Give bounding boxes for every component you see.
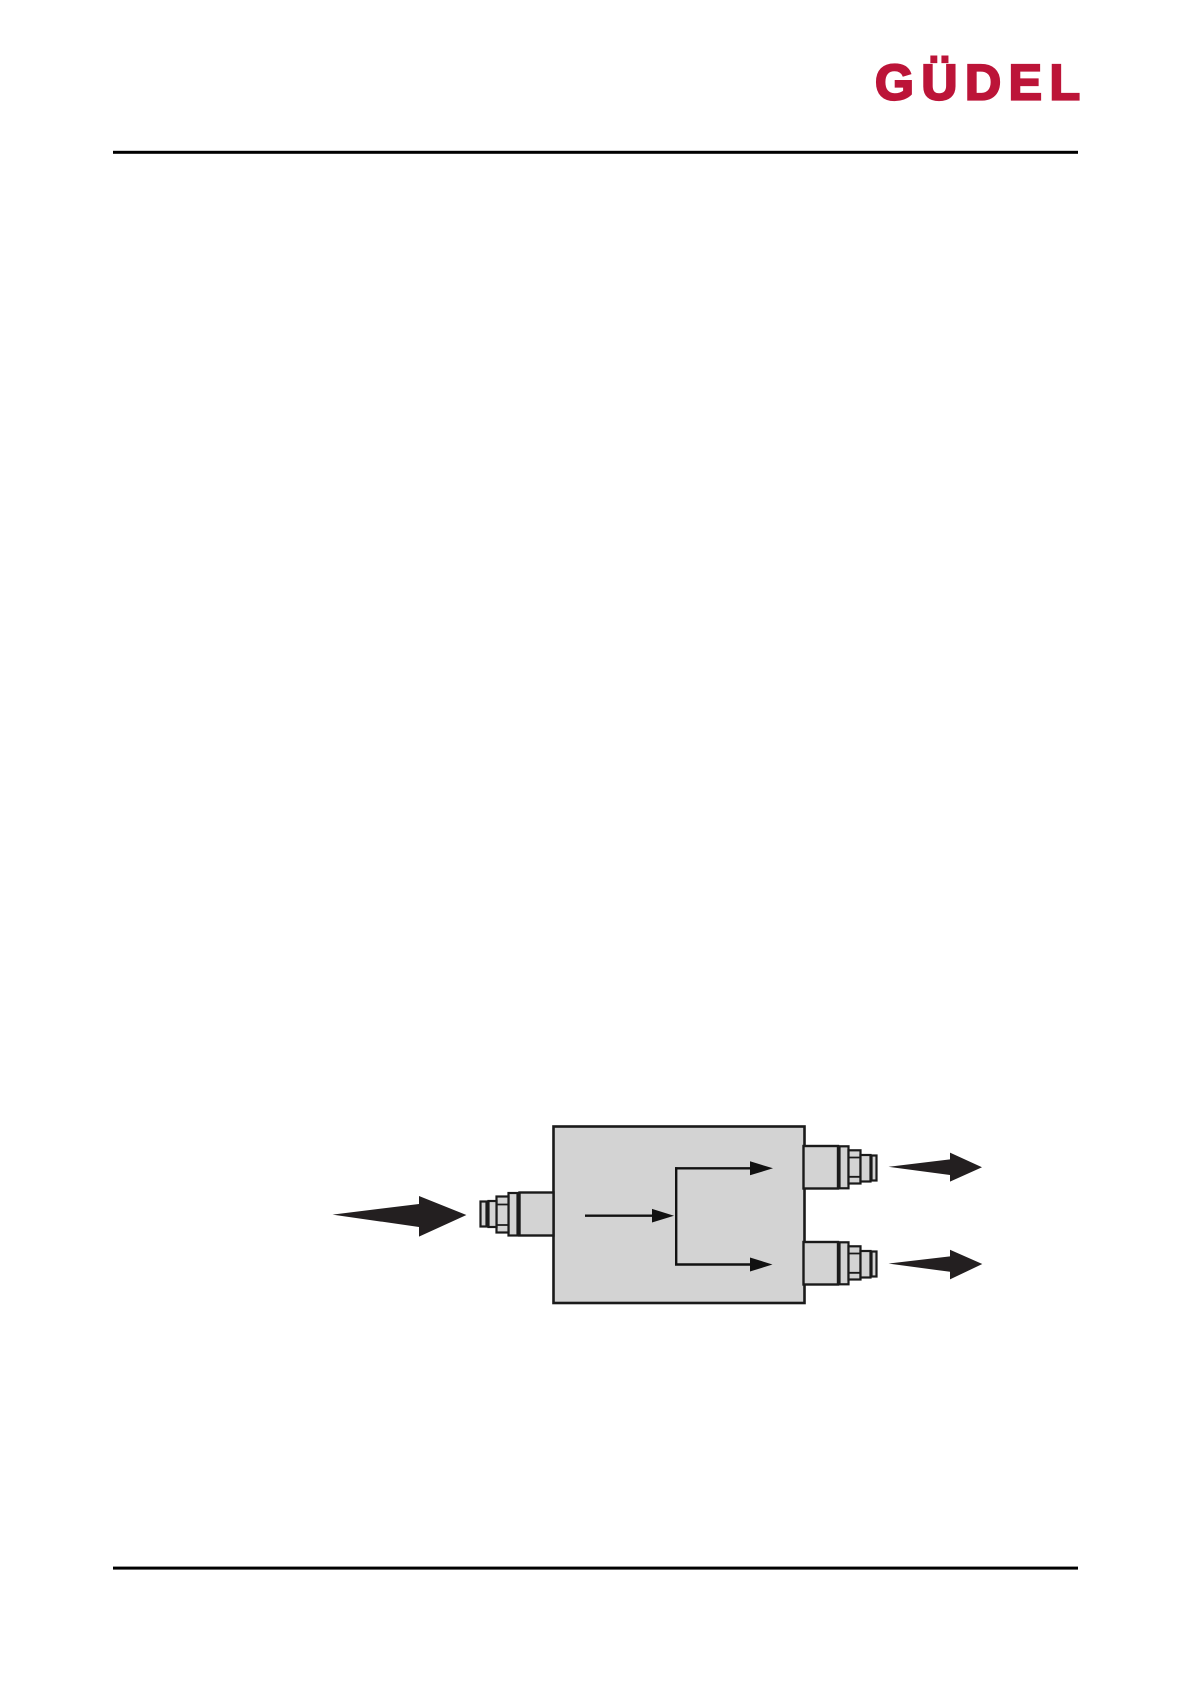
top right hex nut flats <box>849 1158 861 1177</box>
left fitting tip <box>481 1202 487 1227</box>
top branch arrowhead <box>750 1161 773 1175</box>
left fitting washer <box>509 1193 518 1236</box>
bottom right port stub <box>804 1242 839 1285</box>
left fitting hex nut <box>497 1197 509 1233</box>
top right sleeve <box>861 1155 871 1182</box>
big bottom outlet arrow <box>889 1250 983 1280</box>
top right hex nut <box>849 1150 861 1183</box>
inlet flow arrowhead <box>652 1209 674 1223</box>
header rule <box>113 151 1078 154</box>
bottom branch arrowhead <box>750 1258 773 1272</box>
top branch line <box>675 1167 751 1169</box>
bottom right sleeve <box>861 1251 871 1278</box>
big top outlet arrow <box>889 1153 983 1182</box>
bottom right hex nut flats <box>849 1254 861 1273</box>
svg-text:GÜDEL: GÜDEL <box>875 55 1088 111</box>
left fitting sleeve <box>489 1201 497 1227</box>
left hex nut flats <box>497 1205 509 1226</box>
top right washer <box>840 1146 849 1188</box>
inlet flow line <box>585 1214 653 1216</box>
big inlet arrow <box>333 1196 467 1237</box>
bottom right hex nut <box>849 1246 861 1279</box>
left port stub <box>520 1193 554 1236</box>
top right tip <box>872 1156 877 1181</box>
bottom right tip <box>872 1252 877 1277</box>
distributor body <box>554 1127 805 1304</box>
bottom branch line <box>675 1263 751 1265</box>
bottom right washer <box>840 1242 849 1284</box>
branch vertical line <box>675 1167 677 1265</box>
top right port stub <box>804 1146 839 1189</box>
footer rule <box>113 1567 1078 1570</box>
